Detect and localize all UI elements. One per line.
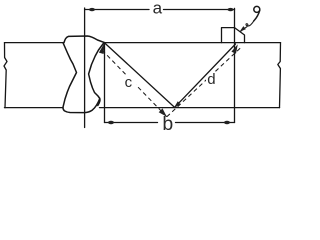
probe body outline [222, 28, 245, 43]
weld bottom reinforcement cap [63, 99, 100, 113]
dimension a line left segment [85, 9, 149, 11]
dimension b line left segment [105, 122, 158, 124]
weld centerline / dimension-a extension line [84, 8, 86, 128]
svg-text:c: c [125, 74, 133, 91]
svg-text:a: a [153, 0, 163, 17]
dimension a left dot [89, 8, 95, 11]
handwritten angle letter g (loop and tail) [254, 6, 260, 21]
plate top edge right of weld [105, 42, 281, 44]
plate bottom edge left of weld [5, 107, 64, 109]
weld cap top dome [64, 36, 105, 43]
plate top edge left of weld [5, 42, 64, 44]
dimension a line right segment [164, 9, 235, 11]
dimension b left dot [108, 121, 114, 124]
solid reflected beam line vertex to probe [175, 44, 236, 107]
arrowhead of angle leader on probe bevel [240, 26, 246, 32]
arrowhead at vertex on reflected beam [174, 101, 181, 108]
arrowhead at bottom V vertex [159, 108, 167, 116]
arrowhead at probe index point (top of d) [231, 44, 237, 54]
svg-text:d: d [207, 71, 215, 88]
dimension a right dot [228, 8, 234, 11]
white patch behind label c [120, 76, 136, 88]
arrowhead at weld toe (beam impingement) [99, 43, 105, 54]
weld left fusion outline (wavy) [63, 43, 77, 108]
angle leader curve (wavy) [241, 21, 254, 32]
svg-text:b: b [162, 113, 173, 133]
weld right fusion outline (wavy) [89, 43, 104, 106]
dimension-b left extension line (weld toe) [104, 43, 106, 123]
dashed beam path c [102, 50, 167, 117]
dimension b right dot [224, 121, 230, 124]
dimension b line right segment [176, 122, 235, 124]
left break line [4, 43, 7, 108]
plate bottom edge right of weld [100, 107, 280, 109]
white patch behind label d [206, 72, 218, 84]
right break line [278, 43, 281, 108]
dashed beam path d [167, 47, 242, 117]
right extension line (probe index) [234, 8, 236, 122]
solid beam line toe to bottom vertex [104, 43, 174, 108]
